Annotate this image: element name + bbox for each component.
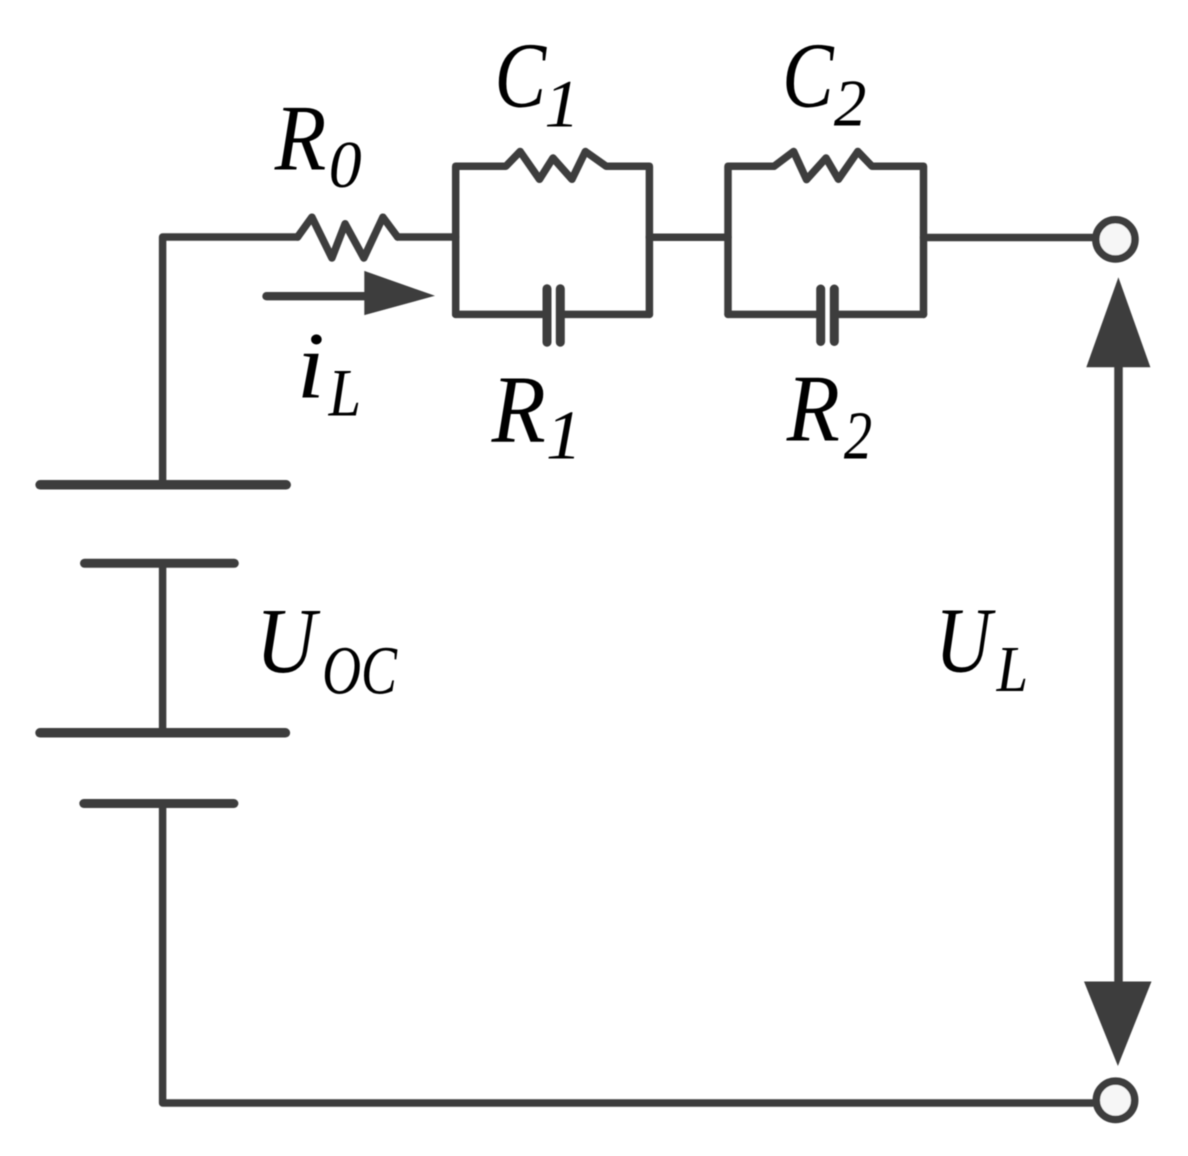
label R1 xyxy=(491,356,582,475)
svg-text:1: 1 xyxy=(544,66,579,141)
label C2 xyxy=(782,23,866,140)
capacitor plates (bottom branch of RC pair 1, labeled R1) xyxy=(547,289,560,342)
svg-text:U: U xyxy=(256,590,321,693)
svg-text:R: R xyxy=(274,86,327,190)
label R0 xyxy=(274,86,362,202)
voltage arrow U_L shaft xyxy=(1114,366,1123,982)
wire: RC pair 2 to positive output terminal xyxy=(924,234,1093,242)
label iL (current) xyxy=(297,314,361,430)
wire: R0 to RC pair 1 xyxy=(398,233,456,241)
label UOC (open-circuit voltage) xyxy=(256,590,398,709)
RC pair 2 frame with resistor zigzag top branch (labeled C2) xyxy=(728,152,924,315)
capacitor plates (bottom branch of RC pair 2, labeled R2) xyxy=(821,289,835,342)
RC pair 1 frame with resistor zigzag top branch (labeled C1) xyxy=(456,152,650,315)
battery U_OC cell 2 positive plate (long) xyxy=(40,728,285,738)
label R2 xyxy=(786,356,872,474)
terminal: negative output node (bottom right) xyxy=(1096,1081,1134,1119)
battery U_OC cell 1 positive plate (long) xyxy=(40,480,286,490)
svg-text:C: C xyxy=(495,24,547,127)
wire: bottom branch left lead of capacitor (labeled R2) xyxy=(728,311,816,319)
svg-text:0: 0 xyxy=(329,129,362,202)
svg-text:C: C xyxy=(782,23,834,127)
wire: bottom branch left lead of capacitor (labeled R1) xyxy=(456,311,543,319)
current arrow i_L shaft xyxy=(267,292,371,300)
voltage arrow U_L bottom head xyxy=(1084,982,1152,1067)
svg-text:R: R xyxy=(786,356,840,461)
svg-text:i: i xyxy=(297,314,325,419)
wire: battery + terminal up and right to resistor R0 (top-left corner) xyxy=(163,237,298,485)
battery U_OC cell 1 negative plate (short) xyxy=(85,559,235,568)
terminal: positive output node (top right) xyxy=(1096,220,1135,259)
svg-text:L: L xyxy=(328,355,361,430)
wire: RC pair 1 to RC pair 2 xyxy=(649,234,728,242)
svg-text:U: U xyxy=(935,588,996,692)
svg-text:2: 2 xyxy=(844,398,872,474)
label UL (load voltage) xyxy=(935,588,1028,706)
wire: battery internal connection between cells xyxy=(159,563,167,733)
voltage arrow U_L top head xyxy=(1086,277,1150,367)
svg-text:OC: OC xyxy=(322,633,398,709)
current arrow i_L head xyxy=(364,271,435,315)
svg-text:L: L xyxy=(996,633,1028,706)
wire: bottom branch right lead of capacitor (labeled R2) xyxy=(839,311,924,319)
svg-text:R: R xyxy=(491,356,546,463)
wire: bottom branch right lead of capacitor (labeled R1) xyxy=(565,311,650,319)
battery U_OC cell 2 negative plate (short) xyxy=(84,799,234,808)
resistor R0 zigzag xyxy=(298,217,398,258)
label C1 xyxy=(495,24,580,141)
wire: battery - terminal down and right to negative output terminal xyxy=(163,804,1093,1104)
svg-text:1: 1 xyxy=(546,397,582,474)
svg-text:2: 2 xyxy=(834,67,866,141)
